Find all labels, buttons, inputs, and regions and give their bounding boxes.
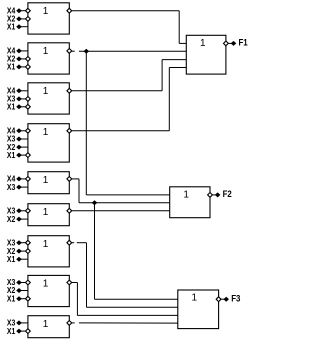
svg-text:1: 1 <box>183 189 189 200</box>
svg-text:1: 1 <box>43 46 49 57</box>
svg-text:X1: X1 <box>7 326 16 336</box>
svg-text:1: 1 <box>43 319 49 330</box>
svg-text:1: 1 <box>43 175 49 186</box>
svg-text:X1: X1 <box>7 150 16 160</box>
svg-text:F3: F3 <box>231 293 240 303</box>
svg-text:1: 1 <box>43 127 49 138</box>
svg-text:1: 1 <box>43 6 49 17</box>
svg-text:X1: X1 <box>7 254 16 264</box>
svg-text:X1: X1 <box>7 293 16 303</box>
svg-text:X1: X1 <box>7 102 16 112</box>
svg-text:F2: F2 <box>223 189 232 199</box>
svg-text:1: 1 <box>43 207 49 218</box>
svg-text:X3: X3 <box>7 182 16 192</box>
svg-text:1: 1 <box>43 86 49 97</box>
svg-text:X1: X1 <box>7 21 16 31</box>
svg-text:X1: X1 <box>7 62 16 72</box>
svg-text:1: 1 <box>200 38 206 49</box>
svg-text:1: 1 <box>192 293 198 304</box>
svg-text:F1: F1 <box>239 38 248 48</box>
svg-text:1: 1 <box>43 279 49 290</box>
svg-text:1: 1 <box>43 239 49 250</box>
svg-text:X2: X2 <box>7 214 16 224</box>
